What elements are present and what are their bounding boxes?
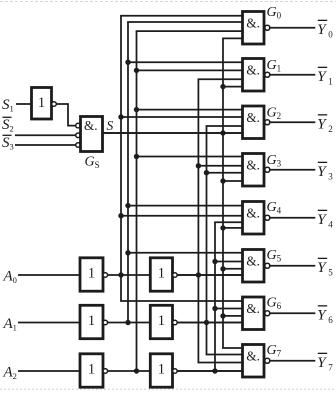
nand-gate G2 output bubble	[265, 120, 270, 125]
wire G7 input 4	[176, 370, 244, 372]
nand-gate G6 output bubble	[265, 311, 270, 316]
nand-gate G7 output bubble	[265, 358, 270, 363]
svg-text:1: 1	[158, 266, 165, 282]
label S2 bar	[3, 116, 12, 118]
wire G7 input 2	[206, 354, 245, 356]
svg-text:&.: &.	[246, 158, 260, 173]
wire G1 input 3	[198, 78, 245, 80]
gate GS input bubble 1	[76, 123, 81, 128]
wire G5 input 3	[222, 268, 244, 270]
svg-text:1: 1	[328, 76, 333, 86]
junction dot 12	[118, 213, 123, 218]
junction dot 14	[125, 250, 130, 255]
svg-text:1: 1	[158, 362, 165, 378]
inverter A1 second output bubble	[173, 320, 178, 325]
junction dot 2	[134, 68, 139, 73]
junction dot 7	[134, 154, 139, 159]
wire Y4 output	[270, 217, 315, 219]
wire net A2 vertical	[214, 222, 216, 371]
nand-gate G3 output bubble	[265, 167, 270, 172]
nand-gate G5 box	[243, 250, 265, 283]
inverter A2 first box	[80, 354, 103, 387]
wire net S vertical	[222, 38, 224, 348]
nand-gate G4 output bubble	[265, 215, 270, 220]
wire G7 input 1	[222, 347, 244, 349]
nand-gate G1 box	[243, 59, 265, 92]
wire G5 input 2	[214, 261, 244, 263]
inverter A1 first box	[80, 305, 103, 338]
inverter A0 first box	[80, 258, 103, 291]
wire net /A1 vertical	[127, 22, 129, 323]
label Y3 bar	[318, 161, 327, 163]
wire Y0 output	[270, 27, 315, 29]
junction dot 10	[220, 178, 225, 183]
svg-text:&.: &.	[246, 254, 260, 269]
svg-text:3: 3	[328, 171, 333, 181]
wire /A1 to second inverter	[108, 322, 151, 324]
wire Y2 output	[270, 121, 315, 123]
wire net /A2 vertical	[136, 31, 138, 371]
wire G1 input 2	[136, 69, 245, 71]
wire G3 input 2	[198, 165, 245, 167]
junction dot 11	[125, 203, 130, 208]
svg-text:&.: &.	[84, 118, 98, 133]
wire G4 input 3	[214, 221, 244, 223]
wire S1' elbow to GS input 1	[56, 104, 75, 126]
junction dot 24	[212, 368, 217, 373]
scan artifact bottom rule	[0, 388, 336, 390]
wire G2 input 1	[136, 109, 245, 111]
inverter A2 second output bubble	[173, 369, 178, 374]
wire A2 input	[18, 370, 80, 372]
svg-text:0: 0	[328, 29, 333, 39]
label S3 bar	[3, 134, 12, 136]
junction dot 9	[204, 170, 209, 175]
svg-text:&.: &.	[246, 110, 260, 125]
junction dot 22	[204, 320, 209, 325]
inverter A1 first output bubble	[103, 320, 108, 325]
svg-text:2: 2	[328, 124, 333, 134]
wire G6 input 2	[214, 308, 244, 310]
svg-text:4: 4	[328, 219, 333, 229]
wire G4 input 1	[127, 205, 244, 207]
inverter D1 (S1) box	[32, 88, 52, 120]
junction dot 13	[220, 225, 225, 230]
junction dot 18	[220, 313, 225, 318]
gate GS input bubble 2	[76, 133, 81, 138]
wire A1 buffered output	[177, 322, 244, 324]
svg-text:1: 1	[88, 266, 95, 282]
label Y4 bar	[318, 209, 327, 211]
wire G6 input 4	[176, 322, 244, 324]
nand-gate G6 box	[243, 297, 265, 330]
nand-gate G5 output bubble	[265, 263, 270, 268]
junction dot 15	[212, 259, 217, 264]
wire A0 input	[18, 274, 80, 276]
wire S output	[103, 132, 245, 134]
junction dot 6	[220, 130, 225, 135]
wire S3 input	[15, 144, 76, 146]
svg-text:&.: &.	[246, 206, 260, 221]
svg-text:1: 1	[158, 313, 165, 329]
inverter A2 second box	[150, 354, 172, 387]
svg-text:1: 1	[38, 95, 45, 111]
and-gate GS box	[81, 117, 103, 152]
wire G0 input 4	[222, 37, 244, 39]
junction dot 3	[220, 84, 225, 89]
wire G1 input 1	[127, 61, 244, 63]
wire G1 input 4	[222, 86, 244, 88]
svg-text:S: S	[107, 118, 114, 133]
gate GS input bubble 3	[76, 143, 81, 148]
inverter A0 second box	[150, 258, 172, 291]
wire G3 input 4	[222, 180, 244, 182]
nand-gate G3 box	[243, 154, 265, 187]
wire /A0 to second inverter	[108, 274, 151, 276]
wire G0 input 2	[127, 21, 244, 23]
wire G2 input 4	[102, 132, 245, 134]
junction dot 17	[212, 306, 217, 311]
wire G5 input 4	[176, 274, 244, 276]
wire G4 input 2	[120, 215, 244, 217]
inverter A1 second box	[150, 305, 172, 338]
wire Y7 output	[270, 360, 315, 362]
wire S2 input	[15, 134, 76, 136]
nand-gate G7 box	[243, 345, 265, 378]
nand-gate G0 output bubble	[265, 25, 270, 30]
nand-gate G2 box	[243, 106, 265, 139]
junction dot 1	[125, 60, 130, 65]
svg-text:1: 1	[88, 313, 95, 329]
wire G0 input 1	[120, 15, 244, 17]
wire Y3 output	[270, 169, 315, 171]
wire Y1 output	[270, 74, 315, 76]
wire net /A0 vertical	[120, 16, 122, 301]
wire G3 input 1	[136, 156, 245, 158]
label Y2 bar	[318, 114, 327, 116]
wire A2 buffered output	[177, 370, 244, 372]
label Y1 bar	[318, 66, 327, 68]
junction dot 5	[118, 114, 123, 119]
inverter A0 second output bubble	[173, 273, 178, 278]
junction dot 20	[196, 272, 201, 277]
wire G5 input 1	[127, 252, 244, 254]
junction dot 8	[196, 163, 201, 168]
label Y6 bar	[318, 305, 327, 307]
svg-text:5: 5	[328, 267, 333, 277]
wire G6 input 3	[222, 315, 244, 317]
label Y7 bar	[318, 352, 327, 354]
svg-text:1: 1	[88, 362, 95, 378]
scan artifact top rule	[0, 1, 336, 3]
wire G0 input 3	[136, 30, 245, 32]
wire A0 buffered output	[177, 274, 244, 276]
svg-text:&.: &.	[246, 63, 260, 78]
inverter D1 output bubble	[52, 102, 57, 107]
label Y5 bar	[318, 257, 327, 259]
wire S1 input	[16, 103, 32, 105]
junction dot 16	[220, 266, 225, 271]
wire /A2 to second inverter	[108, 370, 151, 372]
svg-text:&.: &.	[246, 349, 260, 364]
svg-text:7: 7	[328, 362, 333, 372]
label Y0 bar	[318, 19, 327, 21]
wire net A1 vertical	[206, 126, 208, 355]
wire G4 input 4	[222, 227, 244, 229]
wire Y5 output	[270, 265, 315, 267]
wire G2 input 2	[120, 116, 244, 118]
inverter A0 first output bubble	[103, 273, 108, 278]
junction dot 19	[118, 272, 123, 277]
wire G7 input 3	[198, 362, 245, 364]
junction dot 4	[134, 107, 139, 112]
wire A1 input	[18, 322, 80, 324]
nand-gate G1 output bubble	[265, 72, 270, 77]
svg-text:&.: &.	[246, 16, 260, 31]
junction dot 21	[125, 320, 130, 325]
svg-text:&.: &.	[246, 301, 260, 316]
wire Y6 output	[270, 312, 315, 314]
inverter A2 first output bubble	[103, 369, 108, 374]
wire net A0 vertical	[197, 79, 199, 362]
wire G2 input 3	[206, 125, 245, 127]
nand-gate G4 box	[243, 202, 265, 235]
wire G3 input 3	[206, 172, 245, 174]
nand-gate G0 box	[243, 12, 265, 45]
svg-text:6: 6	[328, 315, 333, 325]
junction dot 23	[134, 368, 139, 373]
wire G6 input 1	[120, 300, 244, 302]
